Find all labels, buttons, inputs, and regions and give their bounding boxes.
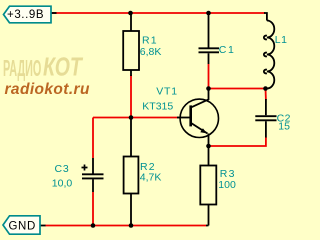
wire top rail xyxy=(51,12,265,14)
junction node R2 bottom xyxy=(129,223,134,228)
wire C2 bottom to emitter xyxy=(209,137,266,146)
svg-text:C1: C1 xyxy=(219,44,236,56)
wire C2 top xyxy=(265,89,267,101)
capacitor C2 xyxy=(255,99,276,138)
wire C3 bottom xyxy=(92,192,94,226)
terminal GND pin xyxy=(40,225,46,227)
junction node base xyxy=(129,115,134,120)
svg-text:КОТ: КОТ xyxy=(43,52,83,81)
junction node collector xyxy=(206,86,211,91)
resistor R3 xyxy=(200,146,216,226)
svg-text:KT315: KT315 xyxy=(142,100,173,112)
resistor R1 xyxy=(123,13,139,76)
svg-text:+3..9В: +3..9В xyxy=(7,9,44,21)
svg-text:10,0: 10,0 xyxy=(52,178,73,190)
svg-text:100: 100 xyxy=(218,179,236,191)
terminal +3..9В xyxy=(4,6,52,23)
wire R1 bottom xyxy=(130,75,132,118)
svg-text:GND: GND xyxy=(9,221,36,233)
polarity plus xyxy=(82,165,88,171)
transistor VT1 xyxy=(177,89,219,147)
svg-text:15: 15 xyxy=(278,121,290,133)
svg-text:radiokot.ru: radiokot.ru xyxy=(5,81,90,98)
junction node emitter xyxy=(206,144,211,149)
wire base rail xyxy=(93,117,179,119)
svg-text:VT1: VT1 xyxy=(156,85,178,97)
svg-text:4,7K: 4,7K xyxy=(140,172,162,184)
inductor L1 xyxy=(264,13,274,89)
wire mid rail node A xyxy=(209,88,266,90)
junction node R1 top xyxy=(128,11,133,16)
wire C3 drop xyxy=(92,118,94,159)
svg-text:РАДИО: РАДИО xyxy=(3,56,41,82)
svg-text:6,8K: 6,8K xyxy=(140,46,162,58)
capacitor C1 xyxy=(199,13,220,64)
svg-text:R1: R1 xyxy=(142,35,158,47)
wire bottom rail xyxy=(45,225,207,227)
junction node C1 top xyxy=(206,11,211,16)
svg-text:L1: L1 xyxy=(275,34,288,46)
svg-text:C3: C3 xyxy=(55,163,70,175)
terminal GND xyxy=(3,216,40,234)
junction node L1 bottom xyxy=(263,86,268,91)
watermark Радио КОТ xyxy=(3,52,83,81)
terminal +3..9V pin xyxy=(51,12,57,14)
wire C1 bottom xyxy=(208,64,210,89)
capacitor C3 xyxy=(82,158,104,192)
junction node C3 bottom xyxy=(91,223,96,228)
resistor R2 xyxy=(124,118,139,226)
